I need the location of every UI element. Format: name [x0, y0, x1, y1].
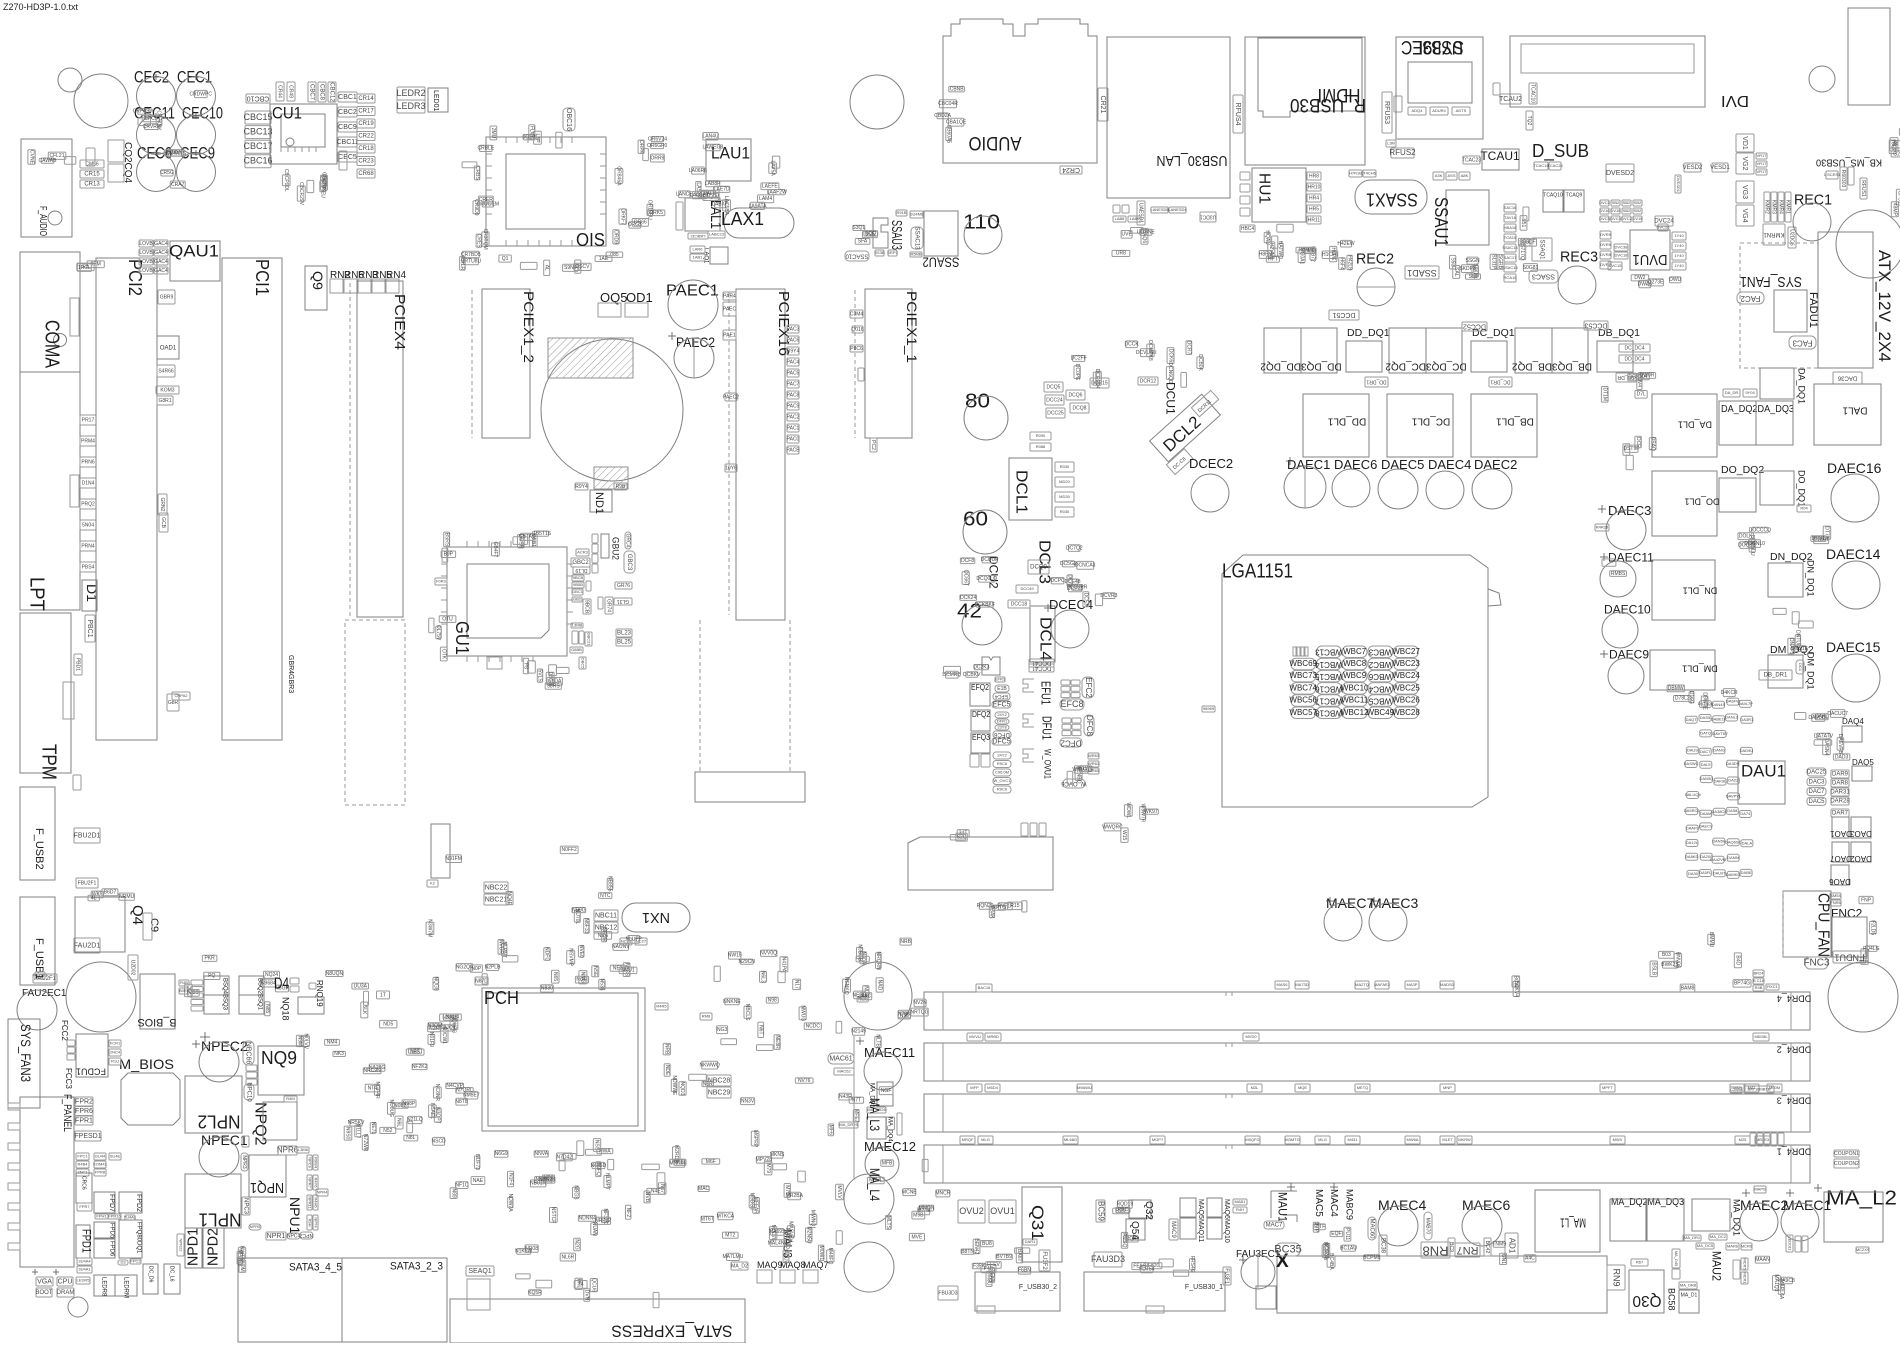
svg-text:LAB9: LAB9: [1130, 216, 1141, 221]
svg-text:PC2: PC2: [870, 440, 876, 450]
svg-text:3U4A1: 3U4A1: [78, 1267, 91, 1272]
svg-text:HR10: HR10: [1308, 184, 1321, 190]
svg-text:NUF73: NUF73: [474, 1154, 480, 1170]
svg-text:A4C: A4C: [1525, 1256, 1535, 1262]
svg-text:MA_DR29: MA_DR29: [839, 1122, 858, 1127]
svg-text:DFC8: DFC8: [1085, 715, 1094, 736]
svg-text:WBC13: WBC13: [1315, 648, 1343, 657]
svg-text:PAC5: PAC5: [787, 370, 800, 376]
svg-text:R5MB: R5MB: [910, 252, 921, 257]
svg-text:DW0R: DW0R: [1640, 373, 1655, 379]
svg-text:DATQ: DATQ: [1700, 730, 1711, 735]
svg-text:DALE: DALE: [1701, 762, 1712, 767]
svg-text:NT4: NT4: [368, 1085, 378, 1091]
svg-text:MAL4N9: MAL4N9: [768, 1240, 788, 1246]
svg-text:NGF: NGF: [881, 1088, 892, 1094]
svg-text:1 SCES1: 1 SCES1: [1824, 172, 1841, 177]
svg-text:NDW7A: NDW7A: [507, 1194, 513, 1213]
svg-text:ADQ4: ADQ4: [1412, 108, 1424, 113]
svg-text:GB2: GB2: [573, 597, 582, 602]
svg-text:NQD3: NQD3: [679, 1082, 685, 1096]
svg-text:PCIEX4: PCIEX4: [391, 294, 408, 350]
svg-text:DO_DL1: DO_DL1: [1684, 497, 1719, 507]
svg-text:MAU2: MAU2: [1709, 1251, 1723, 1281]
svg-text:1RCL: 1RCL: [78, 265, 91, 271]
svg-text:LEDR5: LEDR5: [77, 1278, 91, 1283]
svg-text:NPC4: NPC4: [287, 1233, 301, 1239]
svg-text:GL31: GL31: [617, 598, 629, 604]
svg-text:MAEC3: MAEC3: [1370, 895, 1418, 911]
svg-text:R_USB30: R_USB30: [1290, 94, 1366, 115]
svg-text:CR13: CR13: [84, 182, 100, 188]
svg-text:DAC5: DAC5: [1808, 799, 1825, 805]
svg-text:CR23: CR23: [358, 159, 374, 165]
svg-text:LAQ1: LAQ1: [703, 248, 709, 264]
svg-text:GB4F7: GB4F7: [492, 541, 498, 557]
svg-text:QCU6: QCU6: [591, 1278, 597, 1292]
svg-text:LAM4: LAM4: [759, 196, 772, 202]
svg-text:FPD7: FPD7: [108, 1194, 115, 1212]
svg-text:DAO7: DAO7: [1830, 854, 1852, 863]
svg-text:R4Y6: R4Y6: [313, 1177, 318, 1188]
svg-text:SL31P: SL31P: [1491, 254, 1497, 270]
svg-text:DBMW: DBMW: [1668, 686, 1684, 692]
svg-text:1AE: 1AE: [599, 256, 609, 262]
svg-text:FPD6: FPD6: [109, 1241, 115, 1257]
svg-text:Q9: Q9: [310, 271, 326, 290]
svg-text:REC2: REC2: [1356, 251, 1394, 268]
svg-text:MAQ11: MAQ11: [1197, 1219, 1204, 1242]
svg-text:DW2: DW2: [1634, 275, 1645, 281]
svg-text:RM8: RM8: [702, 1014, 711, 1019]
svg-text:WR65: WR65: [1088, 768, 1100, 773]
svg-text:MAQ5: MAQ5: [1197, 1199, 1204, 1219]
svg-text:R4M: R4M: [286, 1096, 294, 1101]
svg-text:DD_DQ1: DD_DQ1: [1347, 327, 1390, 339]
svg-text:CR15: CR15: [84, 172, 100, 178]
svg-text:WBC8: WBC8: [1343, 659, 1367, 668]
svg-text:DFU1: DFU1: [1040, 716, 1055, 740]
svg-text:SAC16: SAC16: [1504, 205, 1517, 210]
svg-text:DC_DC4: DC_DC4: [1624, 345, 1644, 351]
svg-text:WR63: WR63: [1088, 753, 1100, 758]
svg-text:NG3: NG3: [717, 1027, 728, 1033]
svg-text:DVC15: DVC15: [1609, 263, 1623, 268]
svg-text:9BCB: 9BCB: [584, 600, 590, 614]
svg-text:NV2N: NV2N: [913, 1000, 927, 1006]
svg-text:M6G8L: M6G8L: [1754, 1034, 1768, 1039]
svg-text:NPD2: NPD2: [205, 1228, 222, 1266]
svg-text:BV7B9: BV7B9: [996, 1254, 1012, 1260]
svg-text:OR846A: OR846A: [616, 166, 622, 186]
svg-text:N9BGB: N9BGB: [856, 944, 862, 962]
svg-text:MAC60: MAC60: [1368, 1218, 1374, 1239]
svg-text:CAWAB: CAWAB: [39, 158, 58, 164]
svg-text:NDFC: NDFC: [544, 947, 550, 961]
svg-text:N830: N830: [541, 986, 553, 992]
svg-text:PR17: PR17: [82, 417, 95, 423]
svg-text:OAD1: OAD1: [160, 346, 177, 352]
svg-text:FAC2: FAC2: [1740, 294, 1761, 303]
svg-text:SATA3_2_3: SATA3_2_3: [390, 1261, 443, 1273]
svg-text:NLTBL: NLTBL: [875, 1034, 881, 1049]
svg-text:N5AEL: N5AEL: [429, 1103, 435, 1119]
svg-text:N0FF2: N0FF2: [562, 847, 578, 853]
svg-text:AD1: AD1: [1507, 1238, 1516, 1254]
svg-text:N4E: N4E: [651, 1189, 661, 1195]
svg-text:DCL4: DCL4: [1037, 617, 1054, 661]
svg-text:DAAF9: DAAF9: [1686, 826, 1700, 831]
svg-text:CRC6: CRC6: [80, 1176, 86, 1190]
svg-text:QAU1: QAU1: [169, 241, 219, 260]
svg-text:MNNM: MNNM: [669, 1161, 685, 1167]
svg-text:MA_D2: MA_D2: [731, 1263, 748, 1269]
svg-text:CBC2: CBC2: [338, 109, 357, 116]
svg-text:SSAU2: SSAU2: [922, 254, 959, 270]
svg-text:SQQ: SQQ: [865, 231, 876, 237]
svg-text:LAC5BA: LAC5BA: [723, 196, 729, 216]
svg-text:NW15: NW15: [728, 953, 742, 959]
svg-text:DASN4: DASN4: [1823, 739, 1829, 756]
svg-text:Z270-HD3P-1.0.txt: Z270-HD3P-1.0.txt: [3, 2, 79, 12]
svg-text:DVC2: DVC2: [1621, 216, 1632, 221]
svg-text:MAC4: MAC4: [1328, 1189, 1339, 1217]
svg-text:CR18: CR18: [358, 146, 374, 152]
svg-text:ASS: ASS: [1447, 173, 1455, 178]
svg-text:MMQN: MMQN: [919, 1205, 935, 1211]
svg-text:NCDC: NCDC: [806, 1023, 821, 1029]
svg-text:CBC15: CBC15: [243, 112, 272, 122]
svg-text:WBC17: WBC17: [1315, 696, 1343, 705]
svg-text:EFC2: EFC2: [1084, 677, 1093, 698]
svg-text:DC_DL1: DC_DL1: [1411, 415, 1450, 426]
svg-text:SATA3_4_5: SATA3_4_5: [289, 1262, 342, 1274]
svg-text:96969: 96969: [1203, 706, 1215, 711]
svg-text:M2L: M2L: [1251, 1085, 1260, 1090]
svg-text:DC66T: DC66T: [962, 570, 968, 586]
svg-text:GAC4: GAC4: [154, 250, 168, 256]
svg-text:KMR2: KMR2: [1764, 200, 1770, 214]
svg-text:N6T: N6T: [757, 1025, 763, 1034]
svg-text:MA1Q3: MA1Q3: [1773, 1274, 1779, 1291]
svg-text:N8S: N8S: [410, 1049, 420, 1055]
svg-text:MA_DR1: MA_DR1: [1684, 1235, 1701, 1240]
svg-text:HBA16: HBA16: [1504, 225, 1517, 230]
svg-text:MADS0: MADS0: [1440, 982, 1455, 987]
svg-text:DVC5: DVC5: [1599, 216, 1610, 221]
svg-text:LALGBT: LALGBT: [690, 192, 709, 198]
svg-text:COUPON1: COUPON1: [1834, 1151, 1859, 1157]
svg-text:WBC57: WBC57: [1289, 708, 1317, 717]
svg-text:RCA15: RCA15: [1504, 275, 1518, 280]
svg-text:DCEC2: DCEC2: [1189, 456, 1233, 471]
svg-text:MA_DQ2MA_DQ3: MA_DQ2MA_DQ3: [1611, 1196, 1684, 1208]
svg-text:MA_DC5: MA_DC5: [1697, 1243, 1714, 1248]
svg-text:DA_DQ1: DA_DQ1: [1797, 368, 1807, 404]
svg-text:KMR1: KMR1: [1785, 200, 1791, 214]
svg-text:DAO2: DAO2: [1850, 854, 1872, 863]
svg-text:A8K: A8K: [1461, 173, 1469, 178]
svg-text:CR3TQM: CR3TQM: [482, 229, 488, 250]
svg-text:MD20: MD20: [1059, 479, 1070, 484]
svg-text:COMA: COMA: [41, 320, 63, 369]
svg-text:LEDR3: LEDR3: [396, 101, 425, 111]
svg-text:DAL1: DAL1: [1842, 404, 1867, 415]
svg-text:FCC3: FCC3: [64, 1068, 73, 1089]
svg-text:C3M4: C3M4: [850, 311, 864, 317]
svg-text:D4KCR: D4KCR: [1721, 690, 1738, 696]
svg-text:N65: N65: [552, 972, 558, 981]
svg-text:MNP: MNP: [1443, 1085, 1452, 1090]
svg-text:N17: N17: [793, 980, 799, 989]
svg-text:LANESD6: LANESD6: [1150, 207, 1169, 212]
svg-text:BMMU: BMMU: [1708, 932, 1714, 948]
svg-text:PRQ2: PRQ2: [81, 501, 95, 507]
svg-text:WBC6: WBC6: [1368, 672, 1392, 681]
svg-text:GBR9: GBR9: [160, 294, 174, 300]
svg-text:1T: 1T: [380, 992, 386, 998]
svg-text:NPEC2: NPEC2: [201, 1038, 248, 1054]
svg-text:NM4: NM4: [327, 1040, 338, 1046]
svg-text:0GD7: 0GD7: [523, 135, 536, 141]
svg-text:C9: C9: [148, 918, 160, 932]
svg-text:WBC27: WBC27: [1392, 647, 1420, 656]
svg-text:DSAQ: DSAQ: [1649, 437, 1655, 451]
svg-text:USB30_LAN: USB30_LAN: [1157, 152, 1228, 169]
svg-text:DB_DL1: DB_DL1: [1496, 415, 1534, 426]
svg-text:E1B: E1B: [997, 686, 1007, 692]
svg-text:FPR2: FPR2: [75, 1098, 93, 1105]
svg-text:NBGS: NBGS: [572, 1185, 578, 1200]
svg-text:DOCCCQ: DOCCCQ: [1749, 527, 1771, 533]
svg-text:CBC11: CBC11: [336, 139, 358, 146]
svg-text:DAU1: DAU1: [1741, 761, 1786, 780]
svg-text:DDR4_1: DDR4_1: [1777, 1147, 1812, 1157]
svg-text:MA7LMU: MA7LMU: [722, 1254, 743, 1260]
svg-text:NENKQ: NENKQ: [843, 977, 849, 995]
svg-text:HR5: HR5: [1309, 206, 1319, 212]
svg-text:CR68: CR68: [358, 171, 374, 177]
svg-text:RFUS4: RFUS4: [1234, 103, 1241, 126]
svg-text:DC2K3: DC2K3: [973, 664, 989, 670]
svg-text:UGBNE: UGBNE: [1137, 229, 1155, 235]
svg-text:LED01: LED01: [432, 90, 439, 112]
svg-text:M79: M79: [765, 1163, 771, 1173]
svg-text:K82: K82: [1891, 140, 1897, 149]
svg-text:N2PLB: N2PLB: [485, 965, 502, 971]
svg-text:TCAU2: TCAU2: [1499, 96, 1522, 103]
svg-text:DVR5: DVR5: [1600, 242, 1611, 247]
svg-text:GRC4: GRC4: [625, 534, 631, 548]
svg-text:DVC18: DVC18: [1615, 253, 1629, 258]
svg-text:NN3V: NN3V: [741, 1099, 755, 1105]
svg-text:NSE: NSE: [592, 966, 598, 977]
svg-text:DN_DL1: DN_DL1: [1683, 586, 1718, 596]
svg-text:SM54: SM54: [1830, 893, 1841, 898]
svg-text:DC_DQ3DC_DQ2: DC_DQ3DC_DQ2: [1385, 360, 1467, 371]
svg-text:DAR9: DAR9: [1832, 772, 1849, 778]
svg-text:MPFT: MPFT: [1602, 1085, 1613, 1090]
svg-text:DCQ6: DCQ6: [1069, 392, 1083, 398]
svg-text:RBC: RBC: [1118, 1207, 1129, 1213]
svg-text:1Y40: 1Y40: [1674, 233, 1684, 238]
svg-text:MAU1: MAU1: [1275, 1192, 1289, 1222]
svg-text:DO_DQ1: DO_DQ1: [1797, 470, 1807, 507]
svg-text:TAV16: TAV16: [1504, 215, 1516, 220]
svg-text:N91FM: N91FM: [445, 856, 461, 862]
svg-text:BC38: BC38: [1379, 1238, 1385, 1254]
svg-text:WDWL: WDWL: [1125, 802, 1131, 818]
svg-text:DFR1: DFR1: [997, 719, 1008, 724]
svg-text:NTC: NTC: [600, 893, 611, 899]
svg-text:MRQF: MRQF: [962, 1137, 974, 1142]
svg-text:DAC25: DAC25: [1807, 770, 1827, 776]
svg-text:R4H: R4H: [1236, 1207, 1244, 1212]
svg-text:R9C6: R9C6: [997, 787, 1008, 792]
svg-text:LABC32: LABC32: [690, 234, 706, 239]
svg-text:DCC25: DCC25: [1047, 410, 1064, 416]
svg-text:ND5: ND5: [383, 1021, 393, 1027]
svg-text:A3K: A3K: [1435, 173, 1443, 178]
svg-text:NNKNE: NNKNE: [723, 999, 741, 1005]
svg-text:NAE: NAE: [473, 1178, 484, 1184]
svg-text:F_AUDIO: F_AUDIO: [37, 206, 48, 236]
svg-text:NRF62: NRF62: [595, 1218, 611, 1224]
svg-text:FRS4G: FRS4G: [1189, 1256, 1195, 1273]
svg-text:MAC9: MAC9: [1170, 1221, 1176, 1238]
svg-text:DCR12: DCR12: [1140, 378, 1157, 384]
svg-text:CVNE: CVNE: [28, 150, 34, 165]
svg-text:DA12L: DA12L: [1686, 840, 1699, 845]
svg-text:F2LD5: F2LD5: [1870, 920, 1876, 935]
svg-text:RN8: RN8: [1422, 1244, 1448, 1259]
svg-text:DA5CDL: DA5CDL: [1808, 715, 1828, 721]
svg-text:FBU2F1: FBU2F1: [78, 880, 97, 886]
svg-text:RQN20: RQN20: [977, 903, 994, 909]
svg-text:DAC3: DAC3: [1808, 779, 1825, 785]
svg-text:WBC10: WBC10: [1341, 684, 1369, 693]
svg-text:R4R28: R4R28: [1596, 525, 1609, 530]
svg-text:DCQ8: DCQ8: [1073, 405, 1087, 411]
svg-text:NPR3: NPR3: [241, 1155, 247, 1169]
svg-text:WBC73: WBC73: [1289, 671, 1317, 680]
svg-text:LOVB: LOVB: [139, 241, 153, 247]
svg-text:SSAX1: SSAX1: [1366, 189, 1418, 209]
svg-text:RPTS: RPTS: [992, 905, 1006, 911]
svg-text:CBC5: CBC5: [338, 154, 357, 161]
svg-text:C96.0M: C96.0M: [995, 770, 1009, 775]
svg-text:SFA: SFA: [858, 239, 868, 245]
svg-text:NQKFG: NQKFG: [450, 1015, 456, 1033]
svg-text:7NC1: 7NC1: [77, 1170, 88, 1175]
svg-text:WBC56: WBC56: [1289, 696, 1317, 705]
svg-text:NQ4E: NQ4E: [506, 891, 512, 905]
svg-text:SRP3: SRP3: [887, 250, 898, 255]
svg-text:FPC2: FPC2: [130, 1259, 141, 1264]
svg-text:DAQT: DAQT: [1686, 717, 1698, 722]
svg-text:ORKF7: ORKF7: [619, 208, 625, 225]
svg-text:D_SUB: D_SUB: [1532, 141, 1589, 162]
svg-text:DFC5: DFC5: [992, 738, 1010, 745]
svg-text:DOLK: DOLK: [1739, 534, 1753, 540]
svg-text:NFQR: NFQR: [601, 927, 607, 942]
svg-text:R088: R088: [1036, 444, 1046, 449]
svg-text:DCKBKF: DCKBKF: [975, 602, 995, 608]
svg-text:OL75V: OL75V: [435, 625, 441, 641]
svg-text:U3DC1: U3DC1: [1200, 214, 1217, 220]
svg-text:LANESD4: LANESD4: [1168, 207, 1187, 212]
svg-text:DCK24: DCK24: [960, 595, 976, 601]
svg-text:M2N5U: M2N5U: [805, 1227, 811, 1244]
svg-text:DA_DL1: DA_DL1: [1678, 420, 1712, 430]
svg-text:1Y40: 1Y40: [1674, 243, 1684, 248]
svg-text:PAR4: PAR4: [723, 293, 736, 299]
svg-text:OR66: OR66: [634, 220, 647, 226]
svg-text:DC0PE: DC0PE: [1074, 364, 1080, 381]
svg-text:MAC62: MAC62: [837, 1069, 851, 1074]
svg-text:DAN4S: DAN4S: [1712, 702, 1726, 707]
svg-text:RNQ19: RNQ19: [315, 980, 324, 1007]
svg-text:MA_DC2: MA_DC2: [1710, 1234, 1727, 1239]
svg-text:B_BIOS: B_BIOS: [138, 1016, 177, 1028]
svg-text:N21LQ: N21LQ: [407, 1117, 423, 1123]
svg-text:CRES: CRES: [476, 234, 482, 249]
svg-text:N41PA: N41PA: [781, 957, 787, 973]
svg-text:CU1: CU1: [272, 103, 302, 122]
svg-text:R4B: R4B: [1755, 985, 1763, 990]
svg-text:PAC6: PAC6: [787, 337, 800, 343]
svg-text:NDWWE: NDWWE: [671, 1075, 677, 1096]
svg-text:ORD9: ORD9: [613, 230, 619, 244]
svg-text:SEAQ1: SEAQ1: [468, 1268, 491, 1275]
svg-text:SSAC13: SSAC13: [913, 226, 919, 250]
svg-text:DA42VM: DA42VM: [1710, 857, 1726, 862]
svg-text:DNU1: DNU1: [1812, 536, 1826, 542]
svg-text:D273E: D273E: [1648, 280, 1664, 286]
svg-text:F_USB2: F_USB2: [33, 828, 45, 870]
svg-text:MA_L3: MA_L3: [867, 1098, 883, 1131]
svg-text:M3MTG: M3MTG: [1285, 1137, 1299, 1142]
svg-text:N7T: N7T: [852, 1097, 861, 1103]
svg-text:DCL1: DCL1: [1013, 470, 1030, 514]
svg-text:CBC12: CBC12: [328, 82, 334, 102]
svg-text:DVESD1: DVESD1: [1676, 176, 1681, 193]
svg-text:U2D02: U2D02: [130, 960, 136, 976]
svg-text:TCAQ9: TCAQ9: [1566, 192, 1583, 198]
svg-text:DB_DR1: DB_DR1: [1764, 673, 1788, 679]
svg-text:DAC36: DAC36: [1837, 374, 1857, 380]
svg-text:NKWWQ: NKWWQ: [699, 1063, 719, 1069]
svg-text:GAC4: GAC4: [154, 241, 168, 247]
svg-text:MLTS: MLTS: [885, 1216, 891, 1230]
svg-text:CRPA2: CRPA2: [174, 693, 188, 698]
svg-text:MQE: MQE: [1298, 1085, 1307, 1090]
svg-text:NBC29: NBC29: [708, 1089, 731, 1096]
svg-text:PAE1: PAE1: [723, 332, 736, 338]
svg-text:RN7: RN7: [1456, 1244, 1478, 1256]
svg-text:FPR8: FPR8: [95, 1170, 106, 1175]
svg-text:NK3: NK3: [334, 1051, 344, 1057]
svg-text:DD_DQ3DD_DQ2: DD_DQ3DD_DQ2: [1260, 360, 1342, 371]
svg-text:R4H6: R4H6: [313, 1197, 318, 1208]
svg-text:CR5G: CR5G: [160, 170, 174, 176]
svg-text:Q32: Q32: [1143, 1201, 1154, 1220]
svg-text:DC_D6: DC_D6: [147, 1266, 153, 1283]
svg-text:P8: P8: [523, 663, 529, 669]
svg-text:DN_DQ1: DN_DQ1: [1806, 560, 1816, 597]
svg-text:DC1: DC1: [1798, 663, 1803, 672]
svg-text:PCI1: PCI1: [252, 259, 272, 296]
